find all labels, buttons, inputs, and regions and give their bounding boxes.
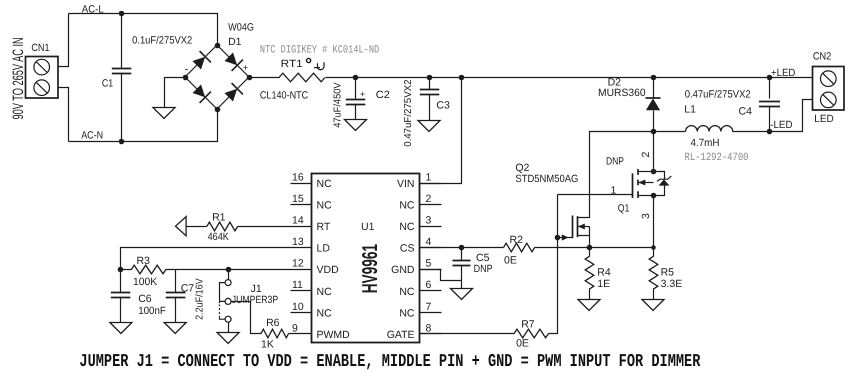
svg-text:100nF: 100nF	[138, 305, 166, 317]
node C4 bottom	[767, 129, 773, 135]
svg-text:RT: RT	[317, 221, 331, 233]
capacitor C6	[120, 270, 122, 293]
capacitor C2	[355, 78, 357, 99]
svg-text:1: 1	[426, 172, 432, 184]
node D2 top	[651, 75, 657, 81]
wire AC-N	[69, 110, 218, 142]
svg-text:CS: CS	[400, 243, 415, 255]
node switch node	[651, 129, 657, 135]
wire LD pin13	[121, 248, 291, 270]
wire R2 to sense node	[535, 247, 654, 249]
ground at R5	[642, 300, 664, 311]
ground at C7	[164, 323, 186, 334]
ground at C6	[110, 323, 132, 334]
node bridge left	[183, 75, 189, 81]
svg-text:4.7mH: 4.7mH	[691, 137, 720, 149]
wire gate bus to Q1 gate	[558, 194, 633, 196]
svg-text:U1: U1	[361, 221, 375, 233]
node CS right	[651, 245, 656, 250]
svg-text:NC: NC	[317, 286, 333, 298]
node VDD J1 tap	[226, 267, 232, 273]
node bridge top	[215, 43, 221, 49]
svg-text:0.47uF/275VX2: 0.47uF/275VX2	[403, 79, 414, 147]
node bridge bottom	[215, 107, 221, 113]
svg-text:-LED: -LED	[770, 119, 793, 131]
wire GATE pin8 to R7	[420, 333, 515, 335]
svg-text:C3: C3	[436, 99, 450, 111]
svg-text:15: 15	[292, 193, 304, 205]
node R3-C6-LD	[118, 267, 124, 273]
svg-text:VDD: VDD	[317, 264, 340, 276]
connector CN1	[26, 57, 59, 99]
ground at R4	[578, 300, 600, 311]
off-page arrow RT	[176, 217, 187, 236]
svg-text:1: 1	[611, 184, 617, 196]
svg-text:GND: GND	[391, 264, 415, 276]
svg-text:3: 3	[426, 215, 432, 227]
svg-text:11: 11	[292, 279, 303, 291]
svg-text:5: 5	[426, 258, 432, 270]
ground at J1	[217, 333, 239, 344]
resistor R4	[589, 248, 591, 257]
resistor R5	[653, 248, 655, 257]
svg-text:AC-N: AC-N	[81, 130, 103, 142]
svg-text:464K: 464K	[208, 231, 229, 243]
node VIN tap	[459, 75, 465, 81]
svg-text:4: 4	[426, 236, 432, 248]
svg-text:C6: C6	[138, 293, 152, 305]
bridge rectifier D1 edge bottom-right diode	[217, 77, 249, 109]
svg-text:R2: R2	[510, 234, 524, 246]
ground at C2	[345, 120, 367, 131]
capacitor C5	[461, 248, 463, 261]
resistor R2	[504, 243, 535, 252]
thermistor RT1	[279, 73, 325, 82]
svg-text:NC: NC	[399, 200, 415, 212]
svg-text:NC: NC	[317, 307, 333, 319]
svg-text:6: 6	[426, 279, 432, 291]
svg-text:1E: 1E	[597, 278, 610, 290]
svg-text:+: +	[360, 89, 365, 99]
node Q1 drain	[651, 169, 657, 175]
svg-text:RL-1292-4700: RL-1292-4700	[685, 152, 749, 164]
wire bridge minus to ground	[165, 78, 186, 108]
svg-text:LED: LED	[814, 113, 834, 125]
svg-text:JUMPER3P: JUMPER3P	[232, 294, 278, 306]
svg-text:9: 9	[292, 322, 298, 334]
bridge rectifier D1 edge top-right diode	[217, 45, 249, 77]
svg-text:CL140-NTC: CL140-NTC	[260, 90, 309, 102]
resistor R6	[261, 329, 289, 338]
node Q2 gate tap	[555, 235, 561, 241]
svg-text:MURS360: MURS360	[598, 87, 646, 99]
svg-text:STD5NM50AG: STD5NM50AG	[515, 173, 578, 185]
svg-text:2.2uF/16V: 2.2uF/16V	[195, 278, 206, 320]
node AC-N junction C1	[119, 139, 125, 145]
wire arrow to R1	[187, 226, 207, 228]
svg-text:L1: L1	[684, 103, 696, 115]
capacitor C4	[769, 78, 771, 99]
svg-text:HV9961: HV9961	[358, 244, 382, 293]
wire VDD to R3	[166, 269, 229, 271]
wire Q1 source to CS	[653, 196, 655, 248]
svg-text:R7: R7	[521, 318, 535, 330]
node Q2 source / R4	[587, 245, 593, 251]
svg-text:Q1: Q1	[618, 203, 630, 215]
wire VIN tap to pin1	[420, 78, 462, 184]
svg-text:NC: NC	[399, 221, 415, 233]
U1 left pin stubs	[291, 183, 313, 185]
ground at bridge	[153, 108, 175, 119]
wire CS to R2	[462, 247, 504, 249]
capacitor C1	[121, 14, 123, 69]
svg-text:NC: NC	[399, 286, 415, 298]
op-amp U1 HV9961 body	[312, 174, 420, 343]
wire switch node to Q1 drain	[653, 132, 655, 173]
svg-text:JUMPER J1 = CONNECT TO VDD = E: JUMPER J1 = CONNECT TO VDD = ENABLE, MID…	[79, 352, 700, 372]
wire AC-L	[69, 14, 218, 46]
wire R7 to gate riser	[549, 195, 558, 334]
svg-text:DNP: DNP	[606, 156, 624, 168]
svg-text:AC-L: AC-L	[82, 4, 104, 16]
resistor R3	[131, 265, 166, 274]
svg-text:13: 13	[292, 236, 304, 248]
svg-text:8: 8	[426, 322, 432, 334]
resistor R1	[207, 222, 238, 231]
wire RT1 to C2 node	[326, 77, 356, 79]
svg-text:0E: 0E	[504, 255, 517, 267]
svg-text:10: 10	[292, 301, 304, 313]
svg-text:CN2: CN2	[813, 50, 832, 62]
svg-text:PWMD: PWMD	[317, 329, 351, 341]
svg-text:3: 3	[640, 213, 652, 219]
svg-text:2: 2	[640, 152, 652, 158]
svg-text:CN1: CN1	[31, 42, 49, 54]
body diode of Q1	[654, 172, 665, 180]
inductor L1	[654, 131, 686, 133]
transistor Q1	[632, 173, 634, 198]
svg-text:0E: 0E	[516, 338, 529, 350]
svg-text:0.1uF/275VX2: 0.1uF/275VX2	[132, 34, 192, 46]
wire CS pin4	[420, 247, 462, 249]
wire GND pin5 to C5 ground	[420, 270, 462, 281]
svg-text:90V TO 265V AC IN: 90V TO 265V AC IN	[10, 37, 27, 119]
svg-text:2: 2	[426, 193, 432, 205]
ground at C5	[451, 289, 473, 300]
svg-text:12: 12	[292, 258, 304, 270]
bridge rectifier D1 edge bottom-left diode	[185, 77, 217, 109]
svg-text:C4: C4	[739, 105, 753, 117]
svg-text:C2: C2	[376, 89, 390, 101]
svg-text:NTC DIGIKEY # KC014L-ND: NTC DIGIKEY # KC014L-ND	[260, 44, 380, 56]
svg-text:LD: LD	[317, 243, 331, 255]
svg-text:3.3E: 3.3E	[661, 278, 683, 290]
node Q1 source	[651, 193, 657, 199]
svg-text:+: +	[243, 63, 248, 73]
wire CN1 pin1 to AC-L	[59, 14, 69, 67]
wire J1 bottom to ground	[228, 323, 230, 333]
svg-text:0.47uF/275VX2: 0.47uF/275VX2	[685, 88, 751, 100]
svg-text:W04G: W04G	[228, 21, 254, 33]
wire J1 middle to R6	[232, 302, 262, 334]
wire bridge plus to RT1	[250, 77, 280, 79]
connector CN2	[813, 67, 845, 111]
svg-text:100K: 100K	[133, 276, 157, 288]
svg-text:16: 16	[292, 172, 304, 184]
node C2 top	[353, 75, 359, 81]
wire top rail	[356, 77, 814, 79]
jumper J1	[228, 270, 230, 280]
svg-text:-: -	[185, 64, 189, 76]
node C4 top / +LED	[767, 75, 773, 81]
wire R6 to pin9	[289, 333, 291, 335]
svg-text:47uF/450V: 47uF/450V	[333, 82, 344, 128]
bridge rectifier D1 edge top-left diode	[185, 45, 217, 77]
svg-text:R6: R6	[266, 317, 280, 329]
node AC-L junction C1	[119, 11, 125, 17]
wire R1 to pin14	[238, 226, 291, 228]
svg-text:R1: R1	[212, 212, 226, 224]
svg-text:14: 14	[292, 215, 304, 227]
wire Q2 gate	[558, 237, 573, 239]
wire CN1 pin2 to AC-N	[59, 88, 69, 142]
svg-text:C7: C7	[181, 283, 195, 295]
svg-text:NC: NC	[317, 200, 333, 212]
wire switch node to Q2 drain	[578, 132, 654, 218]
capacitor C3	[429, 78, 431, 90]
svg-text:R3: R3	[137, 255, 151, 267]
svg-text:VIN: VIN	[397, 178, 415, 190]
svg-text:7: 7	[426, 301, 432, 313]
wire VDD pin12	[229, 269, 291, 271]
U1 right pin stubs	[419, 183, 442, 185]
svg-text:DNP: DNP	[474, 263, 493, 275]
node bridge right	[247, 75, 253, 81]
svg-text:NC: NC	[399, 307, 415, 319]
resistor R7	[514, 329, 548, 338]
node CS C5 tap	[459, 245, 465, 251]
svg-text:RT1: RT1	[281, 58, 303, 70]
thermistor RT1 temperature symbol	[307, 58, 311, 62]
svg-text:1K: 1K	[261, 338, 274, 350]
svg-text:D1: D1	[228, 36, 242, 48]
svg-text:R5: R5	[661, 267, 675, 279]
svg-text:R4: R4	[597, 267, 611, 279]
svg-text:+LED: +LED	[771, 67, 796, 79]
ground at C3	[418, 121, 440, 132]
svg-text:C1: C1	[102, 77, 113, 89]
wire R3 left	[121, 269, 132, 271]
svg-text:NC: NC	[317, 178, 333, 190]
svg-text:GATE: GATE	[387, 329, 415, 341]
capacitor C7	[175, 270, 177, 293]
node C3 top	[427, 75, 433, 81]
diode D2	[653, 78, 655, 98]
transistor Q2	[572, 216, 574, 239]
